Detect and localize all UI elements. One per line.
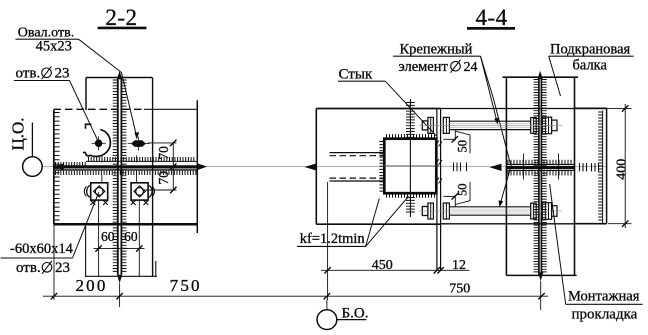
bottom U outline of column flange bbox=[85, 224, 87, 276]
prokladka leader bbox=[550, 184, 566, 304]
leader hook around round hole bbox=[86, 124, 92, 129]
bolt end stub bbox=[552, 206, 557, 217]
crane beam flange rect2 bbox=[575, 107, 607, 109]
svg-text:24: 24 bbox=[464, 60, 478, 75]
Ts.O. circle bbox=[23, 157, 43, 177]
svg-text:2-2: 2-2 bbox=[105, 5, 137, 30]
svg-text:балка: балка bbox=[573, 58, 608, 74]
centerline break marks left of rect1 bbox=[453, 163, 455, 172]
beam web stub solid lines bbox=[330, 152, 385, 154]
shim bottom arrow bbox=[538, 272, 543, 281]
leader line to round hole bbox=[70, 81, 98, 141]
centerline break marks in rect2 bbox=[579, 163, 581, 171]
bolt circle bbox=[95, 188, 103, 196]
left nut bbox=[428, 203, 434, 219]
leader line to oval hole bbox=[79, 39, 137, 136]
splice plates (12mm) verticals bbox=[436, 109, 438, 271]
shim top arrow bbox=[538, 71, 543, 79]
bolt square plate bbox=[91, 183, 108, 200]
leader from label to left bolt bbox=[73, 192, 99, 258]
svg-text:Стык: Стык bbox=[339, 67, 373, 83]
leader to lower bolt bbox=[481, 56, 512, 204]
svg-text:Б.О.: Б.О. bbox=[342, 306, 369, 322]
lower weld tick row bbox=[56, 171, 196, 175]
right washer bbox=[531, 203, 537, 219]
bolt side clamp arcs bbox=[149, 185, 152, 197]
weld ticks at stub end / box left bbox=[380, 152, 384, 154]
weld ticks left of web bbox=[113, 80, 118, 271]
svg-text:Монтажная: Монтажная bbox=[568, 289, 640, 305]
svg-text:200: 200 bbox=[75, 276, 107, 295]
bolt centerline bbox=[419, 210, 562, 212]
weld ticks right of web bbox=[122, 80, 127, 271]
svg-text:400: 400 bbox=[615, 159, 630, 180]
4-4 top flange line bbox=[316, 108, 441, 110]
box bottom weld ticks bbox=[387, 194, 435, 198]
bolt end stub bbox=[552, 120, 557, 131]
2-2 central column web plate bbox=[117, 79, 119, 275]
beam web stub hidden dashed lines bbox=[330, 155, 385, 157]
450 and 12 dimension row bbox=[321, 269, 470, 271]
svg-text:прокладка: прокладка bbox=[572, 306, 638, 322]
bolt rod bbox=[449, 206, 530, 208]
hole centerline stubs bbox=[101, 155, 103, 162]
box horizontal centerline bbox=[381, 165, 440, 167]
montage shim plate vertical (hatched) bbox=[538, 78, 540, 275]
svg-text:Подкрановая: Подкрановая bbox=[550, 42, 631, 58]
weld ticks on left edge bbox=[54, 113, 59, 221]
upper weld tick row (right part) bbox=[89, 157, 194, 161]
svg-text:12: 12 bbox=[452, 258, 466, 273]
svg-text:kf=1.2tmin: kf=1.2tmin bbox=[300, 231, 366, 247]
svg-text:70: 70 bbox=[156, 146, 171, 160]
svg-text:Крепежный: Крепежный bbox=[400, 42, 473, 58]
bolt cross marks below bbox=[131, 200, 136, 205]
left nut bbox=[428, 117, 434, 133]
svg-text:60: 60 bbox=[124, 229, 138, 244]
bolt side clamp arcs bbox=[87, 185, 90, 197]
web bottom arrow bbox=[117, 275, 122, 284]
band inside rect1 upper ticks bbox=[508, 160, 571, 165]
gusset box (thick square) bbox=[384, 139, 436, 194]
svg-text:50: 50 bbox=[456, 184, 470, 197]
left extension lines bbox=[53, 224, 55, 299]
bolt diamond bbox=[94, 186, 105, 197]
svg-text:элемент: элемент bbox=[399, 59, 449, 75]
svg-text:-60х60х14: -60х60х14 bbox=[10, 241, 74, 257]
bottom main dimension line 200 750 750 bbox=[43, 295, 548, 297]
2-2 dashed hidden line bbox=[54, 108, 145, 110]
nut right of splice bbox=[443, 203, 449, 219]
svg-text:45х23: 45х23 bbox=[36, 39, 72, 55]
bolt diamond bbox=[134, 186, 145, 197]
flange band second line bbox=[55, 169, 198, 171]
B.O. marker bbox=[326, 300, 328, 310]
2-2 big plate bottom edge bbox=[54, 223, 198, 226]
bolt square plate bbox=[131, 183, 148, 200]
round hole otv.23 dot bbox=[95, 140, 102, 147]
band inside rect1 lower ticks bbox=[508, 171, 571, 176]
bolt circle bbox=[136, 188, 144, 196]
long vertical stiffener line through box bbox=[409, 99, 411, 217]
web centerline extension to dimension line bbox=[119, 283, 121, 307]
nut right of splice bbox=[443, 117, 449, 133]
bolt centerline bbox=[419, 124, 562, 126]
bolt rod bbox=[449, 120, 530, 122]
2-2 top small rectangle outline bbox=[86, 77, 152, 79]
oval hole 45x23 (filled) bbox=[131, 140, 146, 147]
kf leaders to box corners bbox=[366, 199, 380, 247]
2-2 big gusset plate left edge bbox=[53, 110, 55, 224]
70 70 dimension bbox=[148, 142, 177, 144]
leader to upper bolt bbox=[481, 56, 498, 122]
svg-text:50: 50 bbox=[456, 140, 470, 153]
bolt head bbox=[422, 207, 428, 216]
60 60 dimension line bbox=[94, 248, 145, 250]
hole centerlines in rect1 bbox=[523, 154, 525, 180]
Styk leader bbox=[385, 81, 436, 136]
2-2 big plate right edge bbox=[196, 100, 198, 233]
flange band right arrow bbox=[197, 163, 207, 170]
left extension for 450 bbox=[327, 182, 329, 300]
svg-text:750: 750 bbox=[449, 282, 470, 297]
flange band left arrow bbox=[54, 163, 64, 170]
right nut bbox=[542, 203, 551, 220]
upper weld tick row (left part) bbox=[56, 162, 86, 166]
lower 50 dimension bbox=[443, 195, 455, 197]
bolt head bbox=[422, 121, 428, 130]
main horizontal axis centerline bbox=[43, 166, 606, 168]
svg-text:23: 23 bbox=[55, 66, 70, 82]
svg-text:4-4: 4-4 bbox=[476, 5, 508, 30]
svg-text:70: 70 bbox=[156, 171, 171, 185]
stiffener weld ticks lower bbox=[411, 198, 415, 213]
right washer bbox=[531, 118, 537, 134]
flange band main thick line bbox=[55, 165, 198, 168]
svg-text:Ц.О.: Ц.О. bbox=[8, 117, 27, 150]
svg-text:отв.: отв. bbox=[16, 66, 41, 82]
crane beam end plate rect1 bbox=[503, 76, 579, 78]
round hole cross centerlines bbox=[92, 142, 106, 144]
4-4 bottom flange line bbox=[316, 223, 441, 225]
bolt cross marks below bbox=[91, 200, 96, 205]
svg-text:отв.: отв. bbox=[16, 260, 41, 276]
svg-text:23: 23 bbox=[55, 260, 70, 276]
60-dim extension lines bbox=[98, 200, 100, 276]
4-4 axis left arrow bbox=[305, 163, 317, 170]
shim extension to dim line bbox=[540, 281, 542, 310]
splice squiggle marks bbox=[436, 141, 443, 147]
rect2 inner hatch ticks bbox=[598, 112, 602, 220]
balka leader bbox=[549, 56, 561, 96]
svg-text:750: 750 bbox=[170, 276, 202, 295]
stiffener weld ticks upper bbox=[411, 103, 415, 138]
svg-text:60: 60 bbox=[101, 229, 115, 244]
right nut bbox=[542, 117, 551, 134]
4-4 left end vertical bbox=[315, 109, 317, 225]
band left arrow bbox=[490, 164, 502, 171]
oval hole cross centerlines bbox=[128, 143, 150, 145]
web top arrow bbox=[117, 71, 122, 79]
band inside rect1 lines bbox=[506, 164, 574, 166]
2-2 long right vertical of top rect / bottom U bbox=[152, 78, 154, 277]
400 dimension right side bbox=[607, 107, 632, 109]
box top weld ticks bbox=[387, 134, 435, 138]
2-2 horizontal flange band upper thin line bbox=[86, 160, 197, 162]
svg-text:450: 450 bbox=[372, 258, 393, 273]
upper 50 dimension bbox=[443, 138, 455, 140]
